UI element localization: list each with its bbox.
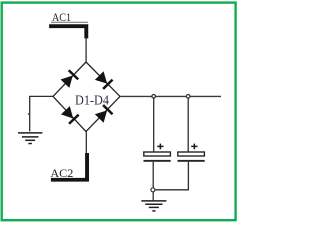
bridge diamond edge top-right	[86, 62, 120, 96]
output wire right vertex to right	[120, 95, 221, 97]
capacitor C1 plus sign	[157, 144, 163, 150]
diode D1 (top-left, points to top vertex)	[60, 70, 78, 88]
svg-text:D1-D4: D1-D4	[75, 94, 109, 109]
wire C1 bottom to junction	[152, 162, 154, 189]
svg-text:AC2: AC2	[50, 166, 73, 180]
junction node circle bottom	[151, 188, 155, 192]
wire C2 bottom, corner, to junction	[155, 162, 188, 190]
ground (bottom)	[141, 201, 166, 211]
capacitor C1 top plate	[144, 152, 171, 156]
AC1 terminal bar (thick L)	[49, 24, 88, 38]
capacitor C2 bottom plate	[178, 160, 205, 162]
wire left vertex to ground corner	[30, 96, 53, 131]
diode D2 (top-right, points to right vertex)	[94, 71, 112, 89]
wire bridge bottom to AC2	[85, 132, 87, 154]
bridge diamond edge bottom-right	[86, 96, 120, 131]
wire node2 down to C2	[187, 98, 189, 152]
underline of AC1	[51, 21, 88, 23]
bridge diamond edge top-left	[53, 62, 86, 96]
tick on left wire	[28, 113, 30, 115]
wire junction to ground	[152, 192, 154, 201]
capacitor C1 bottom plate	[144, 160, 171, 162]
capacitor C2 top plate	[178, 152, 205, 156]
diode D3 (bottom-left, points to bottom vertex)	[61, 106, 79, 124]
ground (left)	[18, 133, 42, 144]
bridge diamond edge bottom-left	[53, 96, 86, 131]
capacitor C2 plus sign	[191, 144, 197, 150]
wire AC1 to bridge top	[85, 38, 87, 63]
wire node1 down to C1	[153, 98, 155, 152]
junction node circle 1 on output wire	[152, 95, 156, 99]
green border frame	[2, 3, 236, 221]
diode D4 (bottom-right, points to right vertex)	[94, 105, 112, 123]
junction node circle 2 on output wire	[186, 95, 190, 99]
AC2 terminal bar (thick L)	[51, 153, 89, 182]
